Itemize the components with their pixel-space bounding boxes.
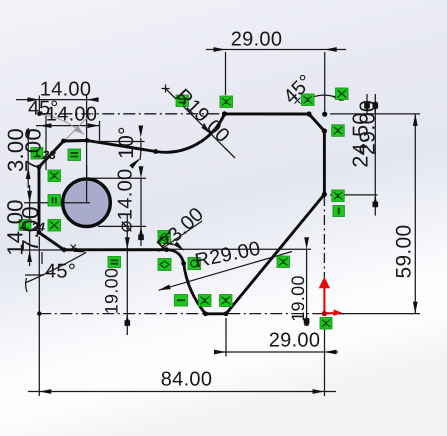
centerline horizontal y=313.6 — [39, 313, 345, 315]
svg-text:⌀14.00: ⌀14.00 — [115, 169, 137, 233]
ext line y=113.9 to right for 59 dim — [330, 113, 420, 115]
dia14 dim: ext circle bottom y=226.4 — [98, 225, 146, 227]
centerline horizontal y=113.8 left of part — [39, 113, 224, 115]
box + 24 at left lower — [19, 220, 31, 231]
box X above T1 — [220, 96, 233, 108]
svg-text:19.00: 19.00 — [288, 275, 308, 322]
box X below origin — [320, 318, 332, 330]
dim 14.00 top#1: line y=99.6 — [16, 99, 96, 101]
svg-text:29.00: 29.00 — [231, 29, 283, 51]
box perp + 23 — [31, 148, 43, 160]
box X at 45 top-right — [302, 94, 315, 106]
left 7.00 arrows — [26, 130, 31, 142]
box X on diagonal — [277, 256, 290, 268]
square drag handles — [125, 103, 379, 326]
left 14.00 arrows (outside) — [27, 191, 32, 203]
green relation boxes — [19, 88, 348, 329]
svg-text:29.00: 29.00 — [356, 100, 380, 155]
svg-text:59.00: 59.00 — [393, 224, 416, 278]
left 14.00 dim line x=29.6 — [29, 185, 31, 266]
10deg dim: horizontal ref line y=141.5 — [95, 141, 145, 143]
84.00 ext left x=39.3 — [38, 237, 40, 397]
ext line circle-center vertical x=86.6 — [86, 96, 88, 204]
24.50 bottom arrow up — [373, 195, 378, 207]
box circle at R29 label — [188, 258, 201, 270]
svg-text:45°: 45° — [28, 98, 58, 120]
hole circle — [63, 179, 111, 227]
centerline vertical x=324.4 — [323, 196, 325, 314]
gray angular arc — [40, 115, 84, 135]
45 bottom-left: angular arc — [25, 253, 86, 284]
vertex dots — [37, 111, 328, 316]
dia14 dim: ext circle top y=178.3 — [88, 177, 146, 179]
59.00 dim line x=418.5 — [414, 114, 416, 314]
svg-text:19.00: 19.00 — [102, 268, 122, 315]
10deg arrows — [138, 126, 143, 138]
circle crosshair — [24, 165, 90, 204]
84.00 arrows (inside) — [39, 389, 51, 394]
box X notch bottom 1 — [199, 295, 212, 307]
59.00 ext bottom y=313.6 — [332, 313, 420, 315]
svg-text:7.00: 7.00 — [17, 206, 43, 252]
box = notch bottom left — [175, 295, 188, 307]
19.00 right arrows (outside) — [304, 237, 309, 249]
svg-text:3.00: 3.00 — [3, 128, 28, 172]
ext y=194.9 from R2 corner — [330, 194, 378, 196]
left 7/3 dim line x=28.2 — [27, 128, 29, 188]
29.00 bottom dim line y=352 — [214, 351, 338, 353]
24.50 short dim line x=367 — [366, 94, 368, 114]
black dimension arrows — [26, 47, 418, 394]
45 bottom-left: short ext ticks — [25, 274, 44, 276]
svg-text:45°: 45° — [45, 261, 76, 283]
84.00 / 29.00 ext right x=324.5 — [324, 318, 326, 396]
dim 14.00 top#2: line y=125.6 — [36, 125, 100, 127]
R19 center cross — [162, 85, 170, 93]
R29 leader — [159, 252, 293, 291]
R3 leader — [158, 221, 202, 252]
ext x=99.5 for dim#2 — [99, 121, 101, 142]
R19 leader — [166, 89, 236, 159]
10deg dim: small arc segment — [139, 138, 142, 160]
gray arc arrowhead — [74, 126, 85, 135]
29.00 top arrows (outside) — [214, 47, 226, 52]
19.00 right dim line x=306.6 — [306, 249, 308, 326]
box X right of 45 arc — [336, 88, 349, 100]
ext line left edge x=39.4 top — [38, 96, 40, 113]
45 bottom-left arrowhead — [74, 247, 87, 255]
dia14 arrows (outside) — [139, 166, 144, 178]
84.00 dim line y=391.5 — [28, 391, 336, 393]
45 bottom-left: small arc tail — [26, 278, 27, 292]
45 top-right: leader arc — [311, 95, 344, 100]
box X left column 1 — [48, 170, 61, 182]
14.00#2 arrows (inside pointing out) — [39, 123, 51, 128]
small x bottom-left — [71, 245, 77, 251]
24.50 arrow down at y=113.9 — [365, 102, 370, 114]
box vert-bars left column 2 — [48, 195, 61, 207]
59.00 arrows (inside) — [413, 114, 418, 126]
19.00 left arrows (outside) — [125, 237, 130, 249]
29.00 right arrow down at y=113.9 — [373, 102, 378, 114]
gray driven 45 dim top-left — [40, 113, 92, 157]
svg-text:84.00: 84.00 — [161, 369, 213, 391]
box = at R19 label — [176, 95, 189, 107]
gray chamfer extension 45deg line — [48, 113, 92, 157]
box = (near top-left) — [68, 149, 81, 161]
dia14 dim line x=141 — [140, 178, 142, 246]
19.00 left dim line x=127.3 — [126, 215, 128, 335]
red origin — [319, 277, 342, 317]
box X left column 3 — [48, 220, 61, 232]
box X right edge at R2 — [332, 190, 345, 202]
box diamond-slash at R3 upper — [158, 231, 171, 244]
box diamond at R3 lower — [158, 259, 171, 271]
14.00#1 arrows (outside) — [27, 97, 39, 102]
small x top-right — [295, 98, 301, 104]
box X notch bottom 2 — [220, 295, 233, 307]
box = above 19.00 left — [108, 257, 121, 268]
svg-text:29.00: 29.00 — [269, 330, 321, 352]
dimension texts — [3, 29, 416, 391]
svg-text:10°: 10° — [115, 126, 138, 159]
R3 leader arrow — [174, 241, 186, 252]
box | right edge below R2 — [333, 206, 345, 217]
bottom edge ext to left y=250 — [24, 249, 64, 251]
R29 leader arrow — [158, 284, 171, 292]
29.00 bottom arrows (outside) — [214, 350, 226, 355]
29.00 top ext right x=324.7 — [324, 52, 326, 112]
box X right edge top — [332, 125, 345, 137]
29.00 bottom ext x=226 — [225, 318, 227, 357]
R19 leader arrow — [201, 124, 213, 136]
29.00 top dim line y=49.5 — [206, 49, 346, 51]
left thin ext x=46 — [45, 116, 47, 170]
ext y=249.2 right of notch — [167, 248, 311, 250]
29.00 right dim line x=375.3 — [374, 94, 376, 216]
29.00 top ext left x=225.5 — [225, 52, 227, 95]
part outline — [39, 114, 324, 314]
10deg leader tick — [132, 160, 139, 168]
45 top-right arrowhead — [329, 93, 342, 101]
